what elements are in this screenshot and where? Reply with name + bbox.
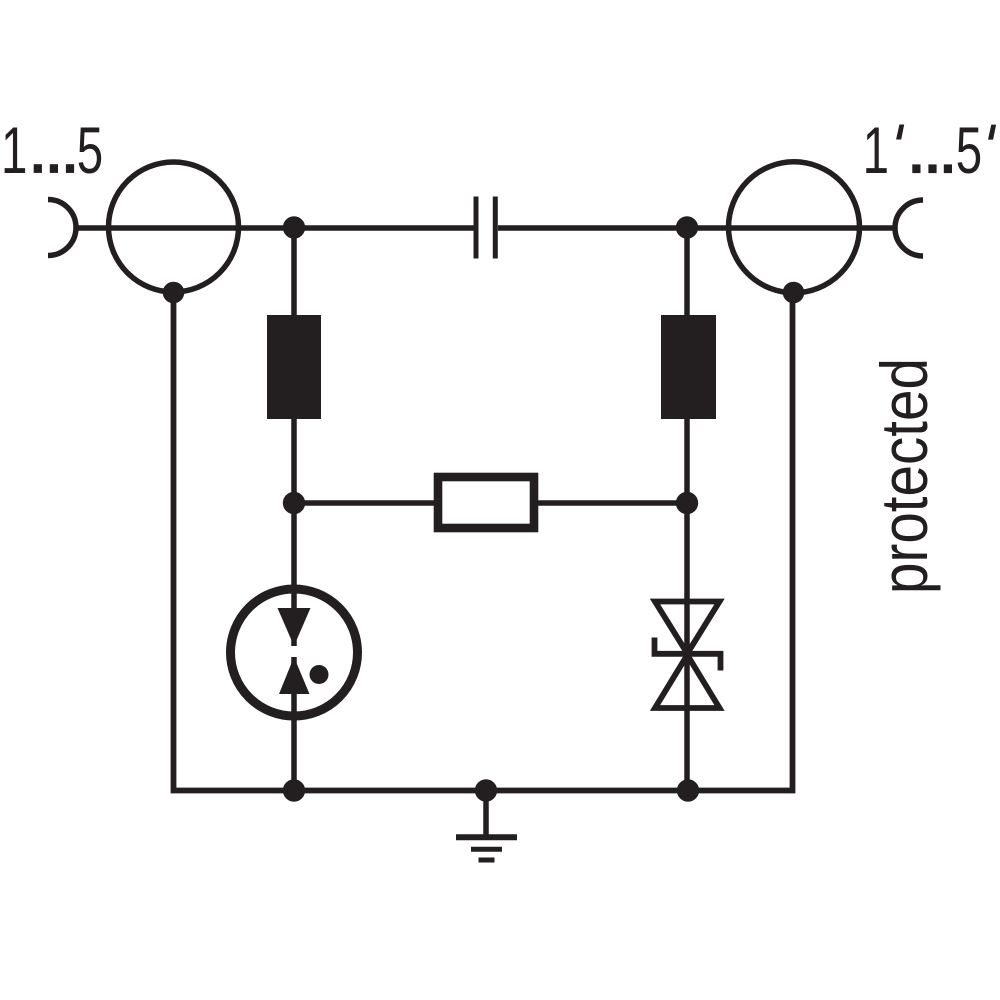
- capacitor C1 left plate: [474, 197, 479, 259]
- wire top-right segment: [498, 225, 895, 231]
- inductor L1 filled rectangle left: [267, 315, 321, 419]
- svg-text:1: 1: [1, 114, 27, 187]
- junction dot bottom ground: [475, 779, 497, 801]
- gas discharge tube G1 down arrow: [278, 608, 311, 646]
- ground stem: [483, 790, 489, 838]
- label 1...5 ellipsis: [34, 164, 42, 173]
- junction dot top right: [676, 216, 698, 238]
- terminal arc right: [895, 200, 923, 256]
- junction dot right circle bottom: [783, 282, 805, 304]
- junction dot middle left: [283, 492, 305, 514]
- svg-text:5: 5: [956, 115, 982, 188]
- ground bar 3: [479, 858, 495, 863]
- suppressor diode V1 bottom triangle: [655, 655, 720, 708]
- wire left branch lower: [291, 657, 297, 790]
- gas discharge tube G1 up arrow: [279, 657, 310, 694]
- gas discharge tube G1 circle: [231, 589, 358, 716]
- wire outer loop left bottom right: [171, 291, 796, 793]
- ground bar 2: [471, 847, 502, 852]
- junction dot bottom left: [283, 779, 305, 801]
- wire top-left segment: [76, 225, 474, 231]
- capacitor C1 right plate: [493, 197, 498, 259]
- terminal arc left: [48, 200, 76, 256]
- unprotected terminal circle left: [109, 162, 239, 292]
- wire right branch: [684, 228, 690, 790]
- inductor L2 filled rectangle right: [661, 315, 716, 419]
- junction dot bottom right: [677, 779, 699, 801]
- junction dot middle right: [676, 492, 698, 514]
- svg-text:5: 5: [77, 114, 103, 187]
- label 1'...5' prime 2: [988, 125, 996, 140]
- wire left branch upper: [291, 228, 297, 646]
- label 1'...5' prime 1: [896, 125, 904, 140]
- suppressor diode V1 top triangle: [655, 602, 720, 654]
- wire middle horizontal: [294, 500, 687, 506]
- resistor R1 open rectangle: [438, 477, 534, 528]
- junction dot top left: [283, 216, 305, 238]
- junction dot left circle bottom: [163, 282, 185, 304]
- suppressor diode V1 gate bar: [655, 638, 721, 671]
- svg-text:1: 1: [863, 115, 889, 188]
- ground bar 1: [456, 834, 517, 840]
- label 1'...5' ellipsis: [912, 164, 920, 173]
- protected terminal circle right: [729, 162, 860, 293]
- gas discharge tube G1 dot: [310, 665, 329, 684]
- svg-text:protected: protected: [867, 358, 941, 594]
